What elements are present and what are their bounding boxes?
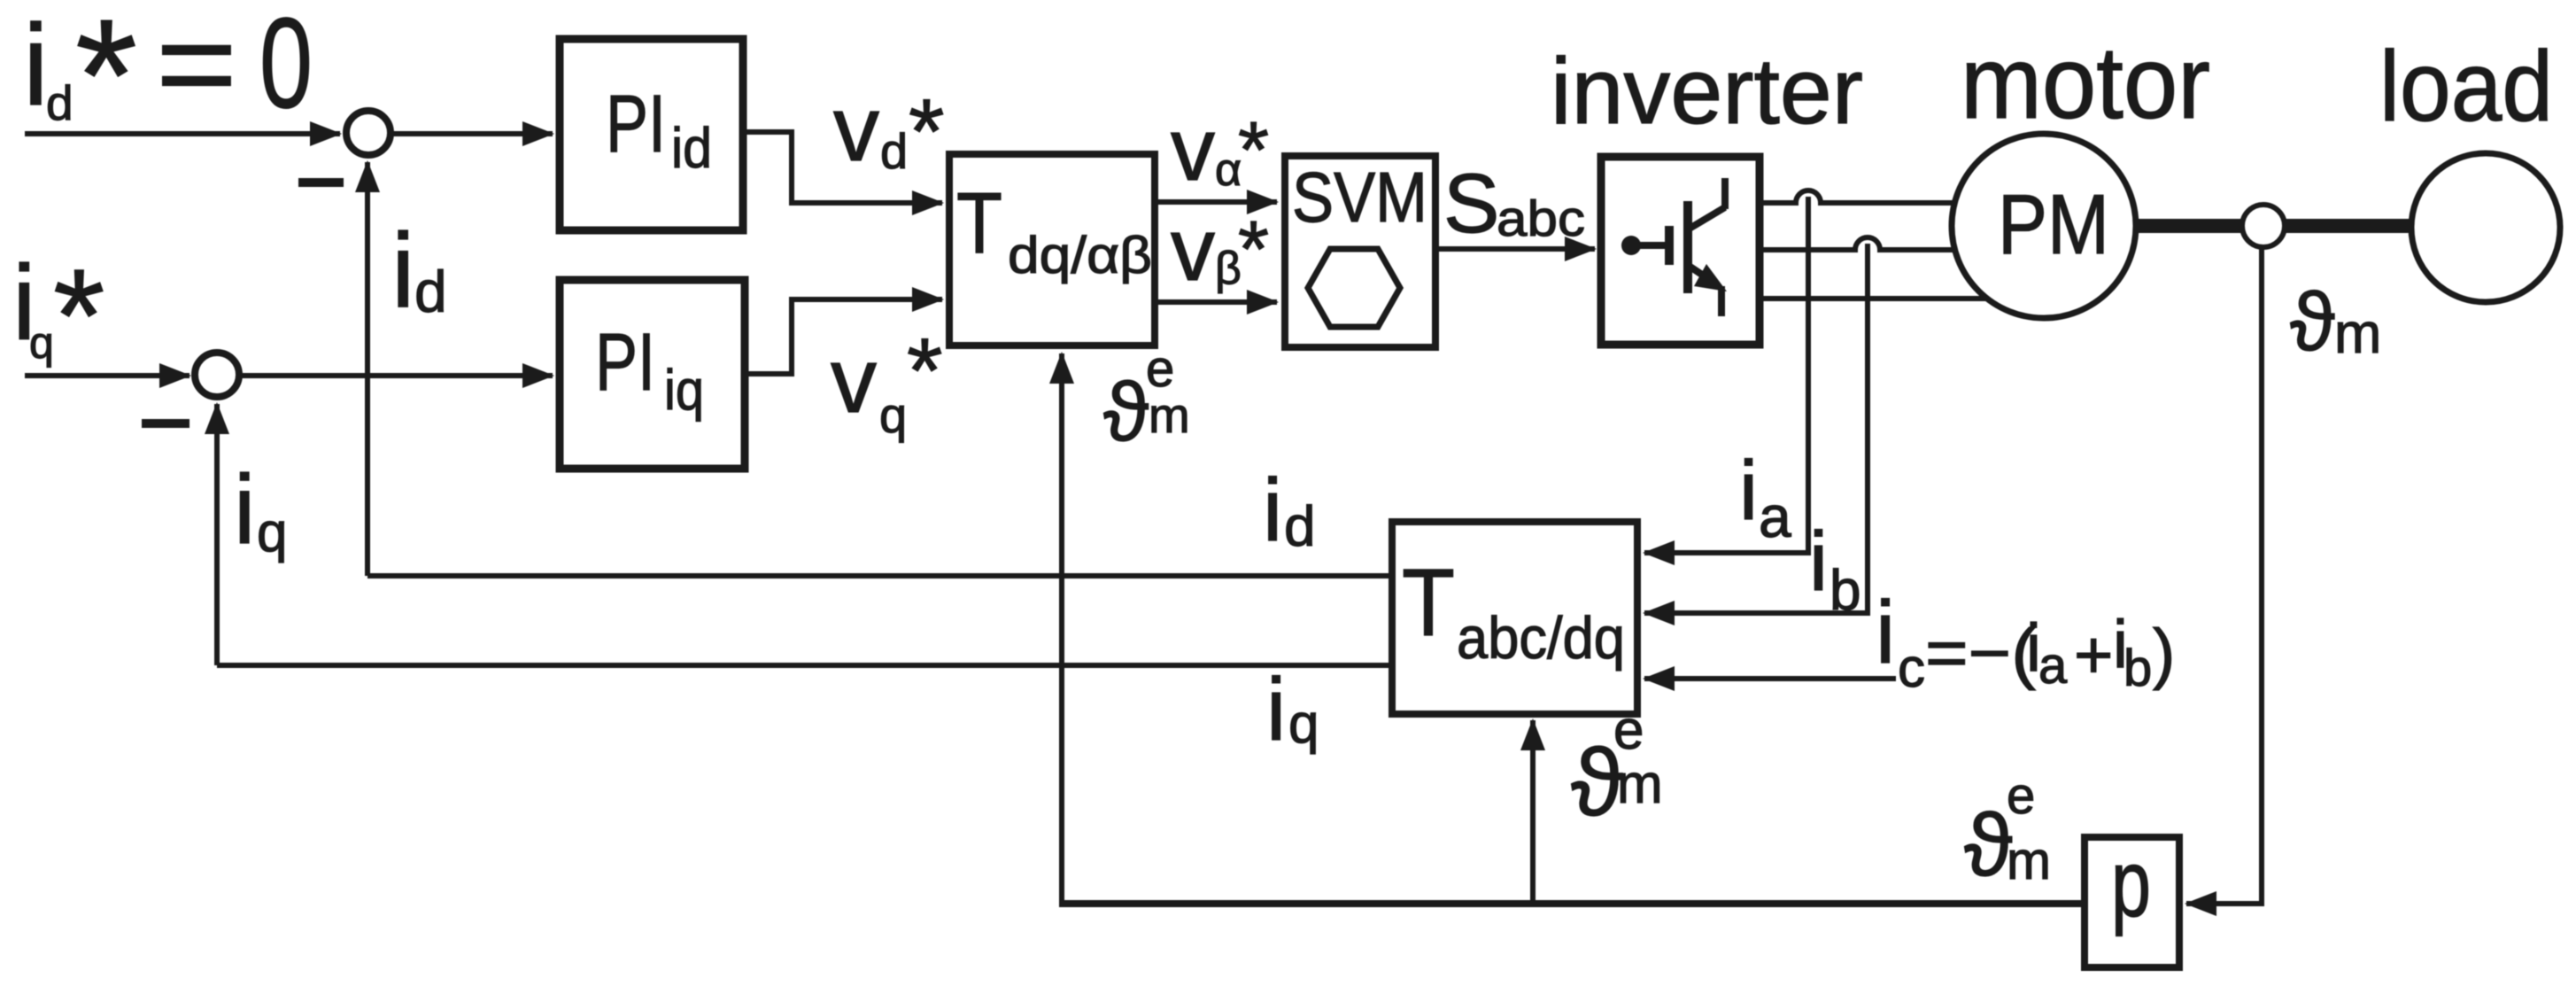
svg-text:i: i: [1876, 583, 1895, 682]
wire SVM to inverter: [1435, 246, 1595, 252]
minus sign at S1: [298, 178, 344, 187]
motor circle PM: [1952, 134, 2136, 318]
wire id feedback from Tabc: [367, 573, 1392, 579]
svg-text:v: v: [1171, 200, 1215, 299]
svg-text:ϑ: ϑ: [2290, 276, 2335, 368]
svg-text:): ): [2153, 616, 2175, 691]
svg-text:v: v: [833, 78, 879, 181]
wire Valpha Tdq to SVM: [1155, 199, 1277, 205]
label ic equation: [1876, 583, 2175, 699]
svg-text:+: +: [2074, 617, 2113, 693]
block PIiq: [560, 280, 745, 469]
wire iq feedback vertical into S2: [214, 404, 220, 665]
wire ia sense line: [1644, 197, 1808, 553]
svg-text:v: v: [1171, 100, 1215, 199]
svg-text:q: q: [29, 318, 54, 368]
svg-text:i: i: [234, 455, 255, 564]
label inverter: [1551, 39, 1863, 144]
svg-text:load: load: [2379, 31, 2553, 142]
svg-text:i: i: [23, 0, 49, 129]
load circle: [2411, 153, 2560, 302]
svg-text:i: i: [1263, 461, 1282, 560]
label theta_m^e at Tdq: [1103, 340, 1190, 458]
label theta_m^e at Tabc: [1571, 700, 1663, 835]
wire id* input: [25, 131, 340, 136]
label Vbeta*: [1171, 200, 1269, 299]
svg-text:=−(: =−(: [1925, 616, 2036, 691]
svg-text:id: id: [671, 116, 712, 180]
transistor IGBT symbol: [1621, 178, 1727, 316]
summing junction S1: [346, 111, 391, 155]
svg-text:abc/dq: abc/dq: [1457, 605, 1625, 672]
svg-text:iq: iq: [664, 358, 704, 422]
svg-text:d: d: [880, 123, 908, 179]
encoder node circle: [2242, 205, 2285, 247]
block p: [2085, 837, 2179, 967]
svg-text:v: v: [831, 330, 877, 432]
svg-text:q: q: [879, 387, 907, 443]
svg-text:*: *: [53, 241, 104, 390]
svg-text:m: m: [2007, 831, 2051, 890]
svg-text:*: *: [907, 320, 942, 423]
wire theta m from shaft node down to p: [2186, 247, 2262, 904]
svg-text:=: =: [156, 0, 237, 133]
wire phase c inverter to motor: [1760, 296, 1989, 301]
svg-text:m: m: [2334, 301, 2381, 365]
wire p output bottom line: [1059, 900, 2085, 907]
svg-text:a: a: [2038, 637, 2068, 695]
wire phase b inverter to motor (sensor bump): [1760, 237, 1956, 250]
block Tabc/dq: [1392, 522, 1637, 714]
svg-text:d: d: [46, 75, 73, 130]
wire S2 to PIiq: [241, 373, 553, 378]
wire ib sense line: [1644, 244, 1868, 613]
wire phase a inverter to motor (sensor bump): [1760, 190, 1954, 203]
label load: [2379, 31, 2553, 142]
wire PIid output to Tdq: [743, 132, 942, 203]
block SVM: [1285, 156, 1435, 347]
shaft encoder node to load: [2285, 219, 2414, 233]
wire ic input: [1644, 676, 1896, 681]
wire theta into Tabc bottom: [1530, 720, 1536, 901]
summing junction S2: [195, 353, 239, 397]
label Valpha*: [1171, 100, 1269, 199]
svg-text:c: c: [1898, 638, 1925, 699]
svg-text:dq/αβ: dq/αβ: [1008, 227, 1152, 284]
svg-text:q: q: [257, 502, 287, 563]
wire S1 to PIid: [392, 131, 553, 136]
svg-text:b: b: [2123, 640, 2152, 697]
svg-text:0: 0: [259, 0, 313, 135]
svg-text:*: *: [909, 81, 944, 183]
svg-text:SVM: SVM: [1292, 158, 1427, 237]
svg-text:S: S: [1443, 157, 1499, 251]
svg-text:ϑ: ϑ: [1103, 365, 1149, 458]
node label id: [391, 212, 447, 330]
svg-text:d: d: [414, 259, 447, 324]
wire Vbeta Tdq to SVM: [1155, 299, 1277, 305]
svg-text:abc: abc: [1497, 190, 1585, 247]
svg-text:PI: PI: [595, 317, 655, 408]
svg-text:*: *: [75, 0, 137, 165]
label iq*: [12, 241, 104, 390]
minus sign at S2: [142, 419, 190, 428]
block inverter: [1601, 157, 1760, 345]
wire PIiq output to Tdq: [745, 299, 942, 374]
label theta_m at shaft: [2290, 276, 2381, 368]
svg-text:d: d: [1284, 494, 1316, 558]
block Tdq/ab: [949, 154, 1155, 346]
svg-text:e: e: [2007, 767, 2035, 825]
svg-text:*: *: [1238, 106, 1269, 195]
svg-text:i: i: [1739, 444, 1758, 538]
svg-text:p: p: [2111, 829, 2151, 936]
svg-text:i: i: [1809, 515, 1828, 609]
shaft PM to encoder node: [2134, 219, 2244, 233]
node label iq: [234, 455, 287, 564]
svg-text:b: b: [1830, 558, 1861, 622]
label vd*: [833, 78, 944, 183]
wire id feedback vertical into S1: [365, 162, 370, 576]
svg-text:T: T: [956, 175, 1002, 271]
svg-text:PM: PM: [1998, 177, 2109, 272]
label vq*: [831, 320, 942, 443]
svg-text:m: m: [1617, 754, 1663, 815]
svg-text:ϑ: ϑ: [1964, 796, 2013, 895]
wire iq feedback from Tabc: [217, 663, 1392, 668]
label ia: [1739, 444, 1791, 549]
label motor: [1961, 25, 2210, 140]
label id* = 0: [23, 0, 313, 165]
svg-text:*: *: [1238, 206, 1269, 294]
svg-text:a: a: [1759, 484, 1791, 549]
svg-text:T: T: [1402, 548, 1455, 656]
svg-text:i: i: [1266, 660, 1286, 759]
svg-text:q: q: [1288, 694, 1319, 755]
svg-text:inverter: inverter: [1551, 39, 1863, 144]
label theta_m^e at p: [1964, 767, 2051, 895]
label ib: [1809, 515, 1861, 622]
svg-text:i: i: [391, 212, 414, 330]
block PIid: [560, 39, 743, 230]
label iq at Tabc: [1266, 660, 1319, 759]
svg-text:m: m: [1149, 387, 1190, 443]
svg-text:motor: motor: [1961, 25, 2210, 140]
hexagon inside SVM: [1308, 249, 1400, 327]
wire theta into Tdq bottom: [1059, 353, 1064, 904]
wire iq* input: [25, 373, 190, 378]
label id at Tabc: [1263, 461, 1316, 560]
svg-text:PI: PI: [606, 79, 666, 169]
label Sabc: [1443, 157, 1585, 251]
